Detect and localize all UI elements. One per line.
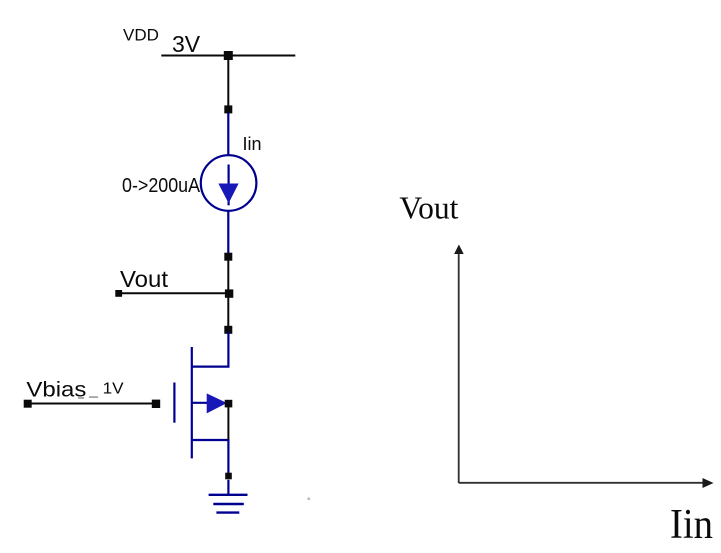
wire VDD rail (161, 55, 295, 57)
node gate terminal (152, 400, 160, 408)
wire VDD rail to current source (227, 56, 229, 110)
svg-text:VDD: VDD (123, 26, 159, 45)
svg-text:3V: 3V (172, 31, 201, 57)
wire current source bottom lead (227, 211, 229, 254)
node current source bottom pin (224, 253, 232, 261)
svg-text:Vout: Vout (120, 266, 169, 292)
wire current source to Vout node (227, 257, 229, 294)
ground (209, 495, 248, 513)
svg-text:0->200uA: 0->200uA (122, 175, 201, 197)
axis Iin horizontal (459, 478, 714, 488)
wire Vout node to drain pin (227, 294, 229, 331)
wire current source top lead (227, 113, 229, 155)
node bulk-source tie (225, 400, 233, 408)
svg-text:1V: 1V (103, 380, 124, 397)
node Vout left terminal (115, 290, 122, 297)
svg-text:Vbias: Vbias (26, 378, 86, 401)
svg-text:Iin: Iin (670, 502, 713, 548)
node drain pin (224, 326, 232, 334)
wire bulk to source tie (227, 404, 229, 441)
wire ground lead (227, 480, 229, 495)
wire source to ground (227, 440, 229, 476)
axis Vout vertical (454, 245, 464, 484)
junction node Vout (225, 289, 233, 297)
junction node VDD rail (224, 51, 233, 60)
transistor M1 NMOS (174, 347, 229, 458)
node current source top pin (224, 105, 232, 113)
node Vbias left terminal (24, 400, 32, 408)
svg-text:Vout: Vout (399, 190, 458, 226)
wire Vout stub (119, 292, 229, 294)
wire Vbias (28, 403, 156, 405)
wire drain lead (192, 332, 229, 367)
current source I1 (201, 155, 257, 211)
svg-text:Iin: Iin (243, 134, 262, 154)
node source-ground pin (225, 473, 232, 480)
